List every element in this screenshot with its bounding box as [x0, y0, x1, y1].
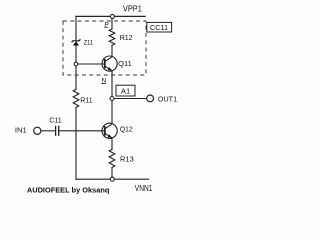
node junction zener/base/R11 [74, 62, 78, 66]
resistor R11 [73, 89, 79, 107]
box CC11 [147, 22, 172, 32]
transistor Q12 [102, 123, 117, 138]
svg-text:OUT1: OUT1 [158, 94, 177, 103]
svg-text:VNN1: VNN1 [135, 184, 153, 193]
wire Q11 emitter down to node A [111, 71, 113, 97]
wire R12 to Q11 collector [111, 45, 113, 56]
terminal IN1 [34, 127, 41, 134]
svg-text:C11: C11 [49, 115, 62, 124]
wire R12 top [111, 16, 113, 29]
wire IN1 to C11 [41, 130, 55, 132]
wire R11 bottom to bottom rail [75, 108, 77, 180]
svg-text:IN1: IN1 [15, 126, 27, 135]
wire OUT1 [114, 98, 147, 100]
terminal OUT1 [147, 95, 154, 102]
node junction on VNN rail [110, 177, 114, 181]
svg-text:R11: R11 [80, 96, 92, 105]
svg-text:Q12: Q12 [120, 124, 133, 133]
capacitor C11 plate right [58, 126, 60, 135]
svg-text:VPP1: VPP1 [123, 5, 142, 14]
dashed box CC11 group [63, 21, 146, 75]
svg-text:A1: A1 [121, 87, 130, 96]
wire VNN bottom rail [76, 178, 149, 180]
wire C11 to Q12 base [59, 130, 104, 132]
capacitor C11 plate left [55, 126, 57, 135]
svg-text:Z11: Z11 [84, 40, 94, 47]
wire zener to junction [75, 46, 77, 62]
svg-text:R13: R13 [120, 154, 134, 163]
resistor R12 [109, 29, 115, 45]
wire node A to Q12 collector [111, 101, 113, 124]
wire Q11 base [78, 63, 104, 65]
resistor R13 [109, 149, 115, 167]
node label N [101, 78, 106, 85]
svg-text:CC11: CC11 [150, 23, 168, 32]
node A junction [110, 97, 114, 101]
svg-text:AUDIOFEEL by Oksanq: AUDIOFEEL by Oksanq [27, 185, 110, 194]
wire R13 to bottom rail [111, 168, 113, 180]
wire R11 top [75, 66, 77, 89]
box A1 [116, 85, 135, 96]
wire VPP top rail [76, 15, 145, 17]
node junction on VPP rail [110, 14, 114, 18]
transistor Q11 [102, 56, 117, 71]
wire zener branch upper [75, 16, 77, 40]
zener diode Z11 [72, 39, 81, 45]
wire Q12 emitter [111, 138, 113, 149]
svg-text:R12: R12 [120, 33, 133, 42]
node label P [104, 21, 109, 28]
svg-text:Q11: Q11 [118, 59, 132, 68]
